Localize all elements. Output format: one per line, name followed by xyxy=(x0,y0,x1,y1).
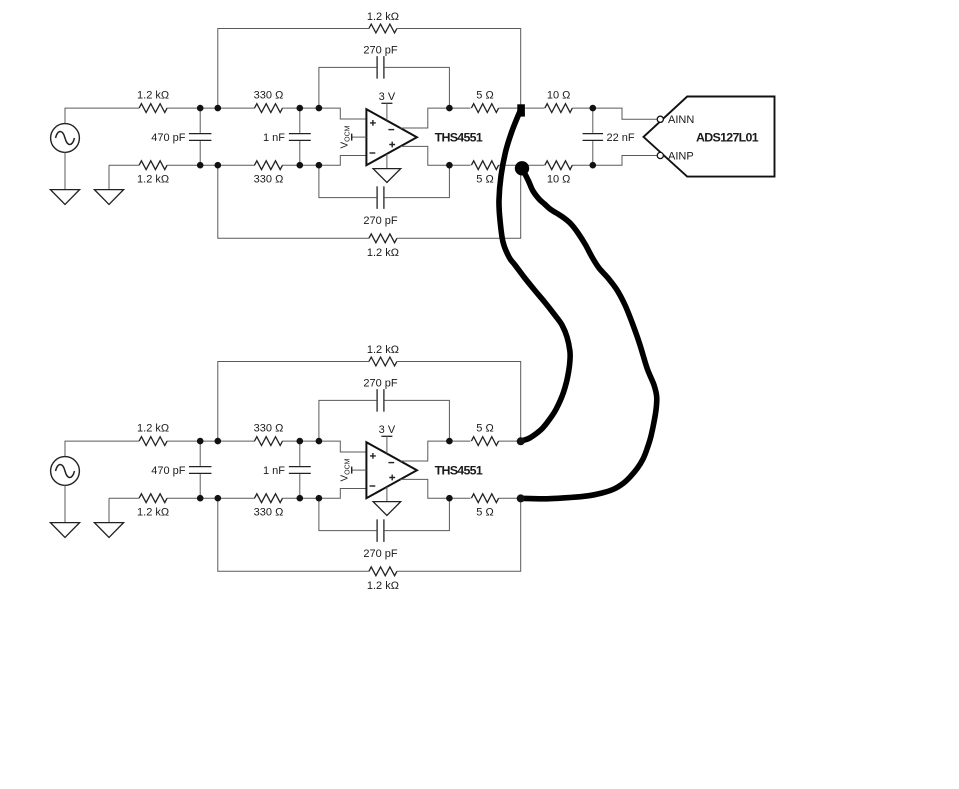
svg-text:THS4551: THS4551 xyxy=(435,131,483,145)
wire source V1 bottom lead xyxy=(64,152,66,189)
capacitor 1 nF (ckt 2) xyxy=(263,441,311,498)
wire op-amp top output step xyxy=(401,441,471,461)
svg-text:270 pF: 270 pF xyxy=(363,548,398,560)
wire bottom rail to op-amp step xyxy=(282,156,366,166)
junction dots bottom rail xyxy=(197,162,453,169)
svg-text:5 Ω: 5 Ω xyxy=(476,423,493,435)
pin AINN circle xyxy=(657,116,663,122)
feedback resistor 1.2 kΩ bottom loop (ckt 2) xyxy=(218,498,521,592)
VOCM pin (ckt 1) xyxy=(340,125,367,148)
hand-drawn jumper wire from node OUTP (ckt1 output) to ckt2 bottom output xyxy=(522,168,657,499)
3 V supply (ckt 2) xyxy=(379,424,396,454)
wire to AINP step xyxy=(572,156,656,166)
wire source V1 top lead xyxy=(65,108,139,124)
wire top rail to 330 xyxy=(167,440,255,442)
junction dot ckt2 bottom output node xyxy=(517,494,525,502)
wire op-amp bottom output step xyxy=(401,146,471,165)
svg-text:470 pF: 470 pF xyxy=(151,465,186,477)
wire top rail to 330 xyxy=(167,107,255,109)
wire op-amp top output step xyxy=(401,108,471,128)
svg-text:270 pF: 270 pF xyxy=(363,378,398,390)
ground at inverting input side (ckt 1) xyxy=(94,165,123,204)
svg-text:1.2 kΩ: 1.2 kΩ xyxy=(367,344,399,356)
svg-text:330 Ω: 330 Ω xyxy=(254,174,284,186)
feedback resistor 1.2 kΩ top loop (ckt 2) xyxy=(218,344,521,441)
resistor R 5 Ω bottom output (ckt 2) xyxy=(471,494,498,519)
svg-text:10 Ω: 10 Ω xyxy=(547,174,571,186)
svg-text:3 V: 3 V xyxy=(379,91,396,103)
feedback capacitor 270 pF top loop (ckt 2) xyxy=(319,378,450,442)
VOCM pin (ckt 2) xyxy=(340,458,367,481)
wire bottom rail to op-amp step xyxy=(282,489,366,499)
svg-text:22 nF: 22 nF xyxy=(607,132,635,144)
ground at inverting input side (ckt 2) xyxy=(94,498,123,537)
junction dot 22nF top xyxy=(590,105,597,112)
svg-text:330 Ω: 330 Ω xyxy=(254,90,284,102)
svg-text:AINN: AINN xyxy=(668,114,694,126)
wire source V2 bottom lead xyxy=(64,485,66,522)
svg-text:270 pF: 270 pF xyxy=(363,215,398,227)
wire to AINN step xyxy=(572,108,656,119)
svg-text:1.2 kΩ: 1.2 kΩ xyxy=(367,11,399,23)
svg-text:1.2 kΩ: 1.2 kΩ xyxy=(137,423,169,435)
resistor R 330 Ω bottom (ckt 2) xyxy=(254,494,284,519)
resistor R 330 Ω bottom (ckt 1) xyxy=(254,161,284,186)
feedback resistor 1.2 kΩ bottom loop (ckt 1) xyxy=(218,165,521,259)
resistor R 10 Ω bottom xyxy=(545,161,573,186)
sine source V1 xyxy=(51,124,80,153)
svg-text:270 pF: 270 pF xyxy=(363,45,398,57)
op-amp output - sign xyxy=(388,462,394,464)
wire 5ohm top to output node xyxy=(499,107,521,109)
wire top rail to op-amp step xyxy=(282,441,366,452)
svg-text:330 Ω: 330 Ω xyxy=(254,423,284,435)
resistor R 1.2 kΩ top input (ckt 2) xyxy=(137,423,169,446)
svg-text:5 Ω: 5 Ω xyxy=(476,174,493,186)
svg-text:1.2 kΩ: 1.2 kΩ xyxy=(367,580,399,592)
svg-text:3 V: 3 V xyxy=(379,424,396,436)
svg-text:1.2 kΩ: 1.2 kΩ xyxy=(137,90,169,102)
stage 1: top THS4551 driver circuit xyxy=(50,11,520,259)
wire source V2 top lead xyxy=(65,441,139,457)
svg-text:ADS127L01: ADS127L01 xyxy=(696,131,759,145)
capacitor 1 nF (ckt 1) xyxy=(263,108,311,165)
svg-text:AINP: AINP xyxy=(668,150,694,162)
ground below op-amp (ckt 2) xyxy=(373,487,401,516)
ground below op-amp (ckt 1) xyxy=(373,154,401,183)
junction dot 22nF bottom xyxy=(590,162,597,169)
op-amp output + sign xyxy=(389,142,395,148)
feedback capacitor 270 pF bottom loop (ckt 1) xyxy=(319,165,450,227)
svg-text:330 Ω: 330 Ω xyxy=(254,507,284,519)
node OUTN square junction marker xyxy=(517,104,525,116)
svg-text:5 Ω: 5 Ω xyxy=(476,507,493,519)
feedback capacitor 270 pF top loop (ckt 1) xyxy=(319,45,450,109)
svg-text:VOCM: VOCM xyxy=(340,125,352,148)
ADC U3 ADS127L01 body xyxy=(644,97,775,177)
svg-text:1.2 kΩ: 1.2 kΩ xyxy=(137,174,169,186)
op-amp input + sign xyxy=(370,453,376,459)
op-amp input - sign xyxy=(370,485,376,487)
svg-text:1.2 kΩ: 1.2 kΩ xyxy=(137,507,169,519)
feedback capacitor 270 pF bottom loop (ckt 2) xyxy=(319,498,450,560)
svg-text:1.2 kΩ: 1.2 kΩ xyxy=(367,247,399,259)
hand-drawn jumper wire from node OUTN (ckt1 output) to ckt2 top output xyxy=(499,110,570,441)
wire 5ohm bottom to output node xyxy=(499,497,521,499)
3 V supply (ckt 1) xyxy=(379,91,396,121)
feedback resistor 1.2 kΩ top loop (ckt 1) xyxy=(218,11,521,108)
wire op-amp bottom output step xyxy=(401,479,471,498)
wire bottom rail to 330 xyxy=(167,497,255,499)
stage 2: bottom THS4551 driver circuit xyxy=(50,344,520,592)
svg-text:10 Ω: 10 Ω xyxy=(547,90,571,102)
op-amp input - sign xyxy=(370,152,376,154)
ground below source V2 xyxy=(50,523,79,538)
ground below source V1 xyxy=(50,190,79,205)
wire output node to 10 ohm bottom xyxy=(528,164,545,166)
svg-text:THS4551: THS4551 xyxy=(435,464,483,478)
svg-text:1 nF: 1 nF xyxy=(263,132,285,144)
wire 5ohm bottom to output node xyxy=(499,164,521,166)
node OUTP blob junction marker xyxy=(515,161,529,175)
op-amp input + sign xyxy=(370,120,376,126)
resistor R 5 Ω top output (ckt 1) xyxy=(471,90,498,113)
resistor R 1.2 kΩ bottom input (ckt 2) xyxy=(109,494,169,519)
resistor R 1.2 kΩ top input (ckt 1) xyxy=(137,90,169,113)
resistor R 5 Ω bottom output (ckt 1) xyxy=(471,161,498,186)
op-amp U1 THS4551 triangle xyxy=(366,109,417,165)
capacitor 470 pF (ckt 1) xyxy=(151,108,211,165)
op-amp U2 THS4551 triangle xyxy=(366,442,417,498)
op-amp output - sign xyxy=(388,129,394,131)
capacitor 470 pF (ckt 2) xyxy=(151,441,211,498)
resistor R 330 Ω top (ckt 1) xyxy=(254,90,284,113)
svg-text:470 pF: 470 pF xyxy=(151,132,186,144)
capacitor 22 nF across ADC inputs xyxy=(583,108,635,165)
sine source V2 xyxy=(51,457,80,486)
wire 5ohm top to output node xyxy=(499,440,521,442)
pin AINP circle xyxy=(657,152,663,158)
wire bottom rail to 330 xyxy=(167,164,255,166)
resistor R 5 Ω top output (ckt 2) xyxy=(471,423,498,446)
junction dots top rail xyxy=(197,438,453,445)
svg-text:VOCM: VOCM xyxy=(340,458,352,481)
wire output node to 10 ohm top xyxy=(525,107,544,109)
junction dots top rail xyxy=(197,105,453,112)
resistor R 10 Ω top xyxy=(545,90,573,113)
svg-text:5 Ω: 5 Ω xyxy=(476,90,493,102)
op-amp output + sign xyxy=(389,475,395,481)
wire top rail to op-amp step xyxy=(282,108,366,119)
resistor R 330 Ω top (ckt 2) xyxy=(254,423,284,446)
junction dots bottom rail xyxy=(197,495,453,502)
junction dot ckt2 top output node xyxy=(517,437,525,445)
svg-text:1 nF: 1 nF xyxy=(263,465,285,477)
resistor R 1.2 kΩ bottom input (ckt 1) xyxy=(109,161,169,186)
